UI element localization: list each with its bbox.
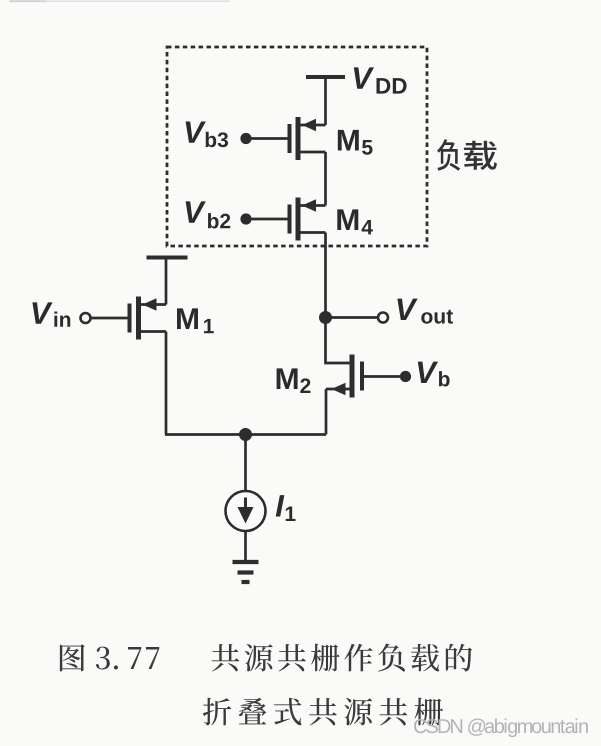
- transistor M1 (PMOS input): [130, 297, 167, 340]
- wire M2 source to tail node: [325, 389, 328, 435]
- wire Vb3 to M5 gate: [252, 137, 288, 140]
- ground: [233, 562, 259, 582]
- power rail VDD bar: [306, 75, 345, 79]
- terminal Vin open circle: [81, 313, 91, 323]
- wire M2 gate to Vb: [364, 375, 400, 378]
- wire output node to Vout terminal: [326, 316, 378, 319]
- wire M5 drain to M4 source: [324, 152, 327, 206]
- watermark CSDN @abigmountain: [414, 719, 588, 738]
- wire M4 drain to output node: [324, 233, 327, 318]
- wire I1 to ground: [244, 531, 247, 561]
- current source I1: [226, 491, 266, 531]
- label M1: [177, 308, 214, 333]
- label I1: [276, 495, 296, 521]
- wire tail rail: [165, 433, 326, 436]
- transistor M4 (PMOS): [290, 198, 326, 241]
- label VDD: [354, 67, 407, 93]
- wire VDD to M5 source: [324, 77, 327, 125]
- wire output node to M2 drain: [326, 318, 351, 364]
- terminal Vb2 dot: [240, 213, 251, 224]
- wire supply bar to M1 source: [165, 258, 168, 305]
- label Vin: [32, 302, 70, 326]
- wire M1 drain to tail node: [165, 332, 168, 435]
- wire tail node to I1: [244, 435, 247, 492]
- caption line 2: 折叠式共源共栅: [203, 698, 443, 726]
- terminal Vb3 dot: [240, 133, 251, 144]
- terminal Vout open circle: [378, 313, 388, 323]
- supply bar above M1: [147, 256, 188, 260]
- label Vb: [418, 362, 450, 387]
- load outline dashed box: [167, 47, 427, 246]
- label 负载 (load): [437, 139, 497, 171]
- caption line 1: 图 3.77 共源共栅作负载的: [60, 644, 472, 672]
- transistor M2 (NMOS cascode): [326, 355, 362, 398]
- label Vb3: [186, 121, 228, 147]
- transistor M5 (PMOS): [290, 117, 326, 160]
- wire Vin to M1 gate: [91, 317, 128, 320]
- terminal Vb dot: [400, 371, 411, 382]
- node tail junction dot: [239, 428, 252, 441]
- wire Vb2 to M4 gate: [252, 218, 288, 221]
- label M4: [337, 209, 373, 234]
- label Vb2: [186, 201, 231, 228]
- label Vout: [397, 299, 453, 324]
- scan artifact line top edge: [9, 0, 230, 2]
- node output junction dot: [319, 311, 332, 324]
- label M2: [277, 368, 311, 393]
- label M5: [338, 130, 373, 155]
